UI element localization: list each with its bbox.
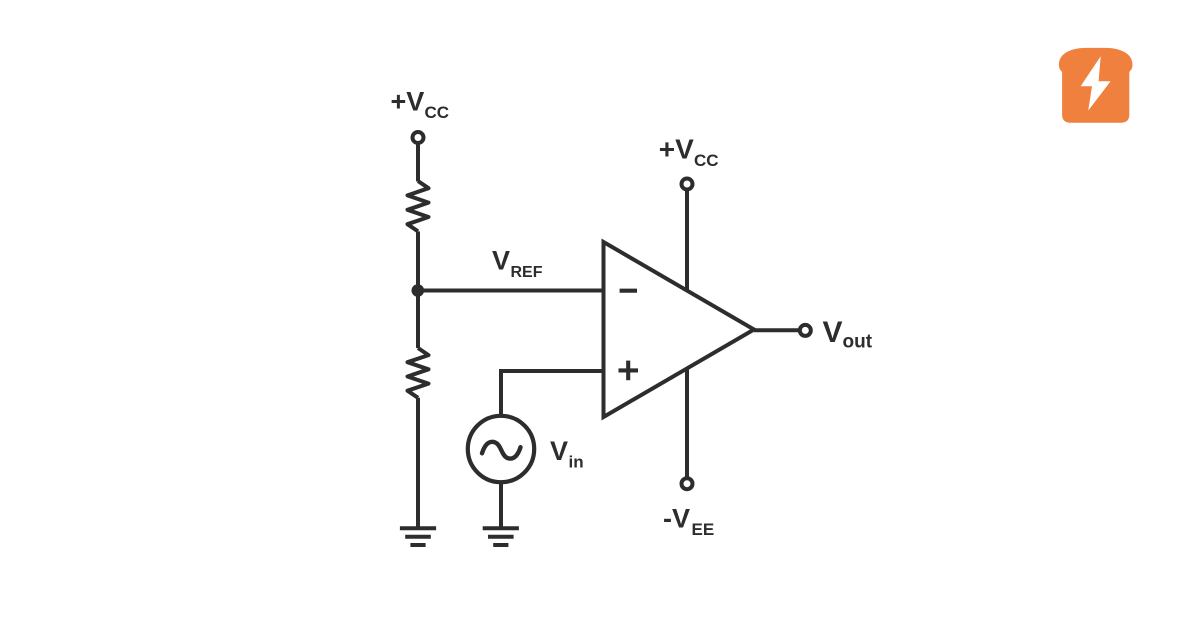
- wire R2 to ground: [416, 398, 420, 528]
- terminal Vout: [800, 325, 811, 336]
- svg-text:+V: +V: [391, 87, 425, 117]
- source Vin (AC): [468, 416, 534, 482]
- label -Vee: [663, 504, 714, 540]
- wire Vin source to +input: [499, 369, 503, 416]
- ground (divider): [400, 528, 436, 545]
- svg-text:in: in: [569, 453, 584, 472]
- ground (Vin): [483, 528, 519, 545]
- label +Vcc (op-amp supply): [659, 134, 719, 171]
- wire terminal to R1: [416, 143, 420, 182]
- logo CircuitBread (toast): [1059, 48, 1133, 123]
- svg-text:-V: -V: [663, 504, 690, 534]
- op-amp inverting input symbol (minus): [620, 289, 637, 293]
- svg-text:REF: REF: [511, 264, 543, 281]
- svg-text:out: out: [843, 332, 873, 353]
- terminal -Vee: [682, 478, 693, 489]
- svg-text:CC: CC: [425, 103, 450, 122]
- svg-text:CC: CC: [694, 151, 719, 170]
- op-amp non-inverting input symbol (plus): [619, 361, 639, 381]
- label Vref: [492, 246, 543, 282]
- label +Vcc (divider supply): [391, 87, 450, 123]
- wire output: [754, 328, 800, 332]
- label Vout: [823, 316, 873, 353]
- resistor R2: [408, 348, 429, 398]
- svg-text:V: V: [492, 246, 510, 276]
- svg-text:V: V: [823, 316, 843, 349]
- wire node to R2: [416, 291, 420, 349]
- wire op-amp to -Vee: [685, 369, 689, 479]
- op-amp U1: [604, 242, 755, 417]
- svg-text:+V: +V: [659, 134, 694, 165]
- resistor R1: [408, 181, 429, 231]
- terminal +Vcc op-amp: [682, 179, 693, 190]
- svg-text:V: V: [550, 436, 568, 466]
- wire Vref (node to inverting input): [418, 289, 604, 293]
- label Vin: [550, 436, 584, 472]
- wire +Vcc to op-amp: [685, 189, 689, 290]
- svg-text:EE: EE: [692, 520, 715, 539]
- wire +input horizontal: [501, 369, 604, 373]
- wire R1 to node: [416, 231, 420, 290]
- node (junction dot): [412, 284, 425, 297]
- wire Vin to ground: [499, 482, 503, 528]
- terminal +Vcc divider: [413, 132, 424, 143]
